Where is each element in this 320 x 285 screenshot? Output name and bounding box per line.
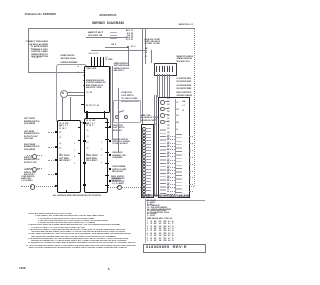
box B left edge ticks: [83, 122, 86, 123]
board left pin labels: [78, 67, 79, 69]
board left pads: [83, 70, 85, 72]
wire dashed igniter left: [21, 186, 57, 187]
box B inner pin column: [86, 125, 88, 127]
header publication number: [25, 14, 56, 17]
wire horizontal y47: [105, 46, 129, 49]
wire vertical x151: [150, 50, 153, 63]
label spark outputs: [177, 78, 192, 99]
label oven ignitor left: [21, 176, 34, 183]
label above top line right: [179, 24, 193, 26]
R2 interior divider: [174, 99, 177, 194]
label spark ignition note: [114, 63, 129, 72]
spark module hatch pins: [156, 66, 157, 72]
box B interior mid labels: [86, 155, 98, 162]
board bottom stubs to switch box: [86, 111, 87, 118]
wire vertical x128: [127, 47, 130, 66]
label L1 N GND: [106, 57, 113, 62]
R2 left pin column rows: [160, 127, 166, 194]
terminal box R1: [141, 124, 154, 198]
label above terminal box R1: [141, 115, 158, 122]
label dark tags top right of connector: [183, 100, 186, 114]
igniter symbol left: [30, 184, 35, 189]
wire left border drop: [27, 28, 30, 73]
pin ticks box A left edge: [55, 131, 58, 133]
label wire color stubs: [144, 47, 148, 59]
switch box B surface burner switches right: [84, 118, 108, 193]
wire horizontal to board: [28, 71, 86, 74]
footer page number 6: [108, 268, 110, 272]
board top pins: [91, 57, 92, 66]
door switch contact symbol: [115, 115, 119, 119]
wire spark module output drops: [156, 74, 159, 97]
node L1 N terminal labels: [33, 57, 42, 59]
label wire tag column: [118, 30, 134, 41]
box A interior top labels: [59, 123, 68, 130]
label maintop section: [61, 55, 78, 65]
junction dot: [127, 46, 129, 48]
wire top bus L1: [28, 27, 195, 30]
gas valve symbol circle: [60, 90, 69, 99]
label maintop 120V: [88, 32, 103, 37]
footer date 1208: [19, 267, 25, 270]
wire vertical pair to connector: [153, 95, 156, 196]
label color legend two-column: [145, 39, 161, 46]
enclosure door switch outline: [113, 100, 142, 123]
igniter symbol right: [117, 185, 122, 190]
enclosure maintop assembly outline: [56, 64, 87, 123]
title WIRING DIAGRAM: [92, 21, 124, 25]
wire leader dashes to box A: [48, 132, 56, 133]
R2 top right sparse labels: [176, 100, 178, 133]
wire dotted stubs to dashed border: [189, 136, 194, 137]
R2 right pin column rows: [176, 134, 182, 195]
wire verticals board to bullets: [109, 66, 112, 126]
control board ESEC module: [84, 66, 110, 113]
wire tag leaders: [110, 31, 117, 34]
R2 dotted jumpers between columns: [167, 136, 175, 137]
connector strip R2 outer box: [158, 97, 189, 198]
wire dashed corner bottom right: [189, 186, 195, 187]
note warning text block top-left: [0, 41, 48, 43]
label oven door light switch: [121, 92, 138, 104]
header model number EI30GS55JS: [100, 14, 117, 17]
R1 terminal rows: [142, 127, 146, 131]
box A interior mid labels: [59, 155, 70, 162]
part number 318369859 REV E: [143, 244, 205, 253]
wire vertical x146.5: [144, 28, 147, 64]
box A inner pin column: [59, 127, 61, 129]
wire right dashed cabinet border: [194, 28, 195, 186]
R2 left inner labels: [167, 99, 169, 101]
box A right edge ticks: [78, 127, 81, 128]
box B interior top labels: [86, 120, 95, 127]
spark module box: [154, 63, 177, 76]
label left callout blocks: [24, 118, 48, 120]
board interior text: [87, 68, 97, 70]
label bullet callouts right of box B: [109, 126, 111, 128]
legend wire color code heading: [146, 197, 189, 199]
label oven ignitor right: [111, 176, 124, 183]
box B right edge pin ticks: [105, 122, 108, 124]
notes block: [28, 213, 82, 215]
caption under connector: [141, 196, 190, 198]
table wire gauge rows: [147, 222, 174, 224]
wire valve drop right: [69, 97, 72, 121]
wire horizontal y50: [91, 49, 147, 52]
label J2 pins: [154, 118, 156, 128]
table wire gauge heading: [147, 219, 172, 221]
label spark module name: [177, 56, 194, 63]
wire dashed igniter right: [108, 187, 142, 188]
label BK near bus: [112, 44, 117, 46]
wire valve drop left: [61, 97, 64, 121]
box A bottom tick: [66, 190, 67, 193]
wire from valve to board pair: [67, 91, 85, 94]
inline switch symbols on leaders: [27, 155, 42, 156]
caption under switch boxes: [53, 195, 101, 197]
legend block left rule and underline: [146, 199, 205, 202]
switch box A surface burner switches left: [57, 120, 81, 193]
legend color rows: [147, 201, 156, 203]
board pin labels: [89, 53, 99, 55]
wire vertical x143: [141, 28, 144, 124]
board left stub: [81, 104, 84, 105]
wire horizontal y37: [86, 36, 129, 39]
wire vertical mid x118: [117, 88, 120, 153]
